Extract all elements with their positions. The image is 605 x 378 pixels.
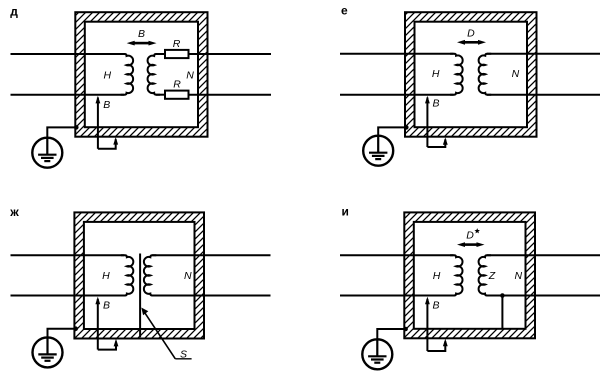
- wire: ground to shield (panel д): [47, 127, 76, 137]
- svg-text:B: B: [138, 28, 145, 40]
- svg-text:D: D: [467, 28, 475, 40]
- earth ground symbol (panel и): [362, 339, 392, 369]
- displacement arrow D double-headed (panel е): [464, 41, 479, 44]
- wire: ground to shield (panel е): [378, 127, 406, 135]
- wire: right bottom lead-out (panel и): [487, 295, 600, 297]
- shield enclosure (panel ж): [74, 212, 204, 338]
- wire: right top lead-out (panel и): [487, 254, 600, 256]
- winding H (panel д): [121, 54, 134, 95]
- winding H (panel и): [450, 255, 462, 295]
- winding N (panel е): [479, 54, 492, 95]
- svg-text:N: N: [186, 69, 194, 81]
- resistor R1 (panel д): [165, 50, 189, 58]
- svg-text:B: B: [103, 299, 110, 311]
- winding N (panel ж): [144, 255, 156, 295]
- svg-text:ж: ж: [9, 205, 19, 219]
- shield enclosure (panel и): [404, 212, 535, 338]
- wire: left top lead-in (panel и): [340, 254, 454, 256]
- wire: left top lead-in (panel е): [340, 53, 454, 55]
- wire: ground to shield (panel и): [377, 329, 405, 340]
- shield current loop arrow (panel д): [98, 139, 116, 149]
- wire: left bottom lead-in (panel ж): [11, 295, 125, 297]
- svg-text:Z: Z: [488, 270, 496, 282]
- svg-text:D: D: [466, 229, 474, 241]
- shield enclosure (panel е): [405, 12, 537, 137]
- flux arrow B double-headed (panel д): [134, 42, 150, 45]
- winding H (panel е): [450, 54, 463, 95]
- junction dot ground-shield (panel д): [74, 125, 79, 130]
- partition screen S (panel ж): [139, 254, 141, 338]
- svg-text:H: H: [432, 68, 440, 80]
- winding H (panel ж): [121, 255, 133, 295]
- arrow B vertical with shield current path (panel и): [426, 299, 428, 351]
- shield enclosure (panel д): [75, 12, 207, 137]
- shield current loop arrow (panel и): [427, 341, 445, 351]
- wire: winding Z bottom terminal to shield (panel и): [501, 296, 503, 330]
- svg-text:B: B: [432, 98, 439, 110]
- earth ground symbol (panel ж): [33, 337, 63, 367]
- shield current loop arrow (panel ж): [98, 342, 116, 350]
- displacement arrow D* double-headed (panel и): [464, 243, 478, 246]
- shield current loop arrow (panel е): [427, 139, 445, 147]
- arrow B vertical with shield current path (panel е): [426, 98, 428, 148]
- junction dot ground-shield (panel ж): [73, 326, 78, 331]
- svg-text:B: B: [103, 99, 110, 111]
- wire: right top lead-out (panel е): [487, 53, 600, 55]
- earth ground symbol (panel д): [32, 138, 62, 168]
- wire: right bottom lead-out (panel ж): [152, 295, 270, 297]
- wire: winding N bottom to resistor R2 (panel д): [156, 94, 165, 96]
- wire: left top lead-in (panel д): [11, 53, 125, 55]
- junction dot winding Z terminal (panel и): [500, 293, 505, 298]
- svg-text:и: и: [342, 205, 349, 219]
- junction dot ground-shield (panel е): [404, 125, 409, 130]
- svg-text:N: N: [184, 270, 192, 282]
- svg-text:N: N: [515, 270, 523, 282]
- wire: winding N top to resistor R1 (panel д): [156, 53, 165, 55]
- winding Z (panel и): [479, 255, 491, 295]
- wire: left top lead-in (panel ж): [11, 254, 125, 256]
- winding N (panel д): [148, 54, 161, 95]
- leader arrow to screen S (panel ж): [144, 311, 175, 358]
- svg-text:H: H: [104, 69, 112, 81]
- svg-text:R: R: [173, 79, 181, 91]
- wire: left bottom lead-in (panel и): [340, 295, 454, 297]
- svg-text:R: R: [173, 38, 181, 50]
- svg-text:е: е: [341, 4, 348, 18]
- wire: resistor R2 to right bottom lead-out (panel д): [189, 94, 272, 96]
- arrow B vertical with shield current path (panel ж): [97, 299, 99, 350]
- svg-text:д: д: [10, 4, 18, 18]
- wire: left bottom lead-in (panel д): [11, 94, 125, 96]
- svg-text:H: H: [102, 270, 110, 282]
- wire: left bottom lead-in (panel е): [340, 94, 454, 96]
- wire: right bottom lead-out (panel е): [487, 94, 600, 96]
- svg-text:B: B: [432, 300, 439, 312]
- arrow B vertical with shield current path (panel д): [97, 98, 99, 149]
- wire: resistor R1 to right top lead-out (panel д): [189, 53, 272, 55]
- junction dot ground-shield (panel и): [403, 327, 408, 332]
- earth ground symbol (panel е): [363, 136, 393, 166]
- wire: ground to shield (panel ж): [48, 329, 76, 338]
- svg-text:H: H: [433, 270, 441, 282]
- svg-text:N: N: [512, 68, 520, 80]
- resistor R2 (panel д): [165, 91, 189, 99]
- wire: right top lead-out (panel ж): [152, 254, 270, 256]
